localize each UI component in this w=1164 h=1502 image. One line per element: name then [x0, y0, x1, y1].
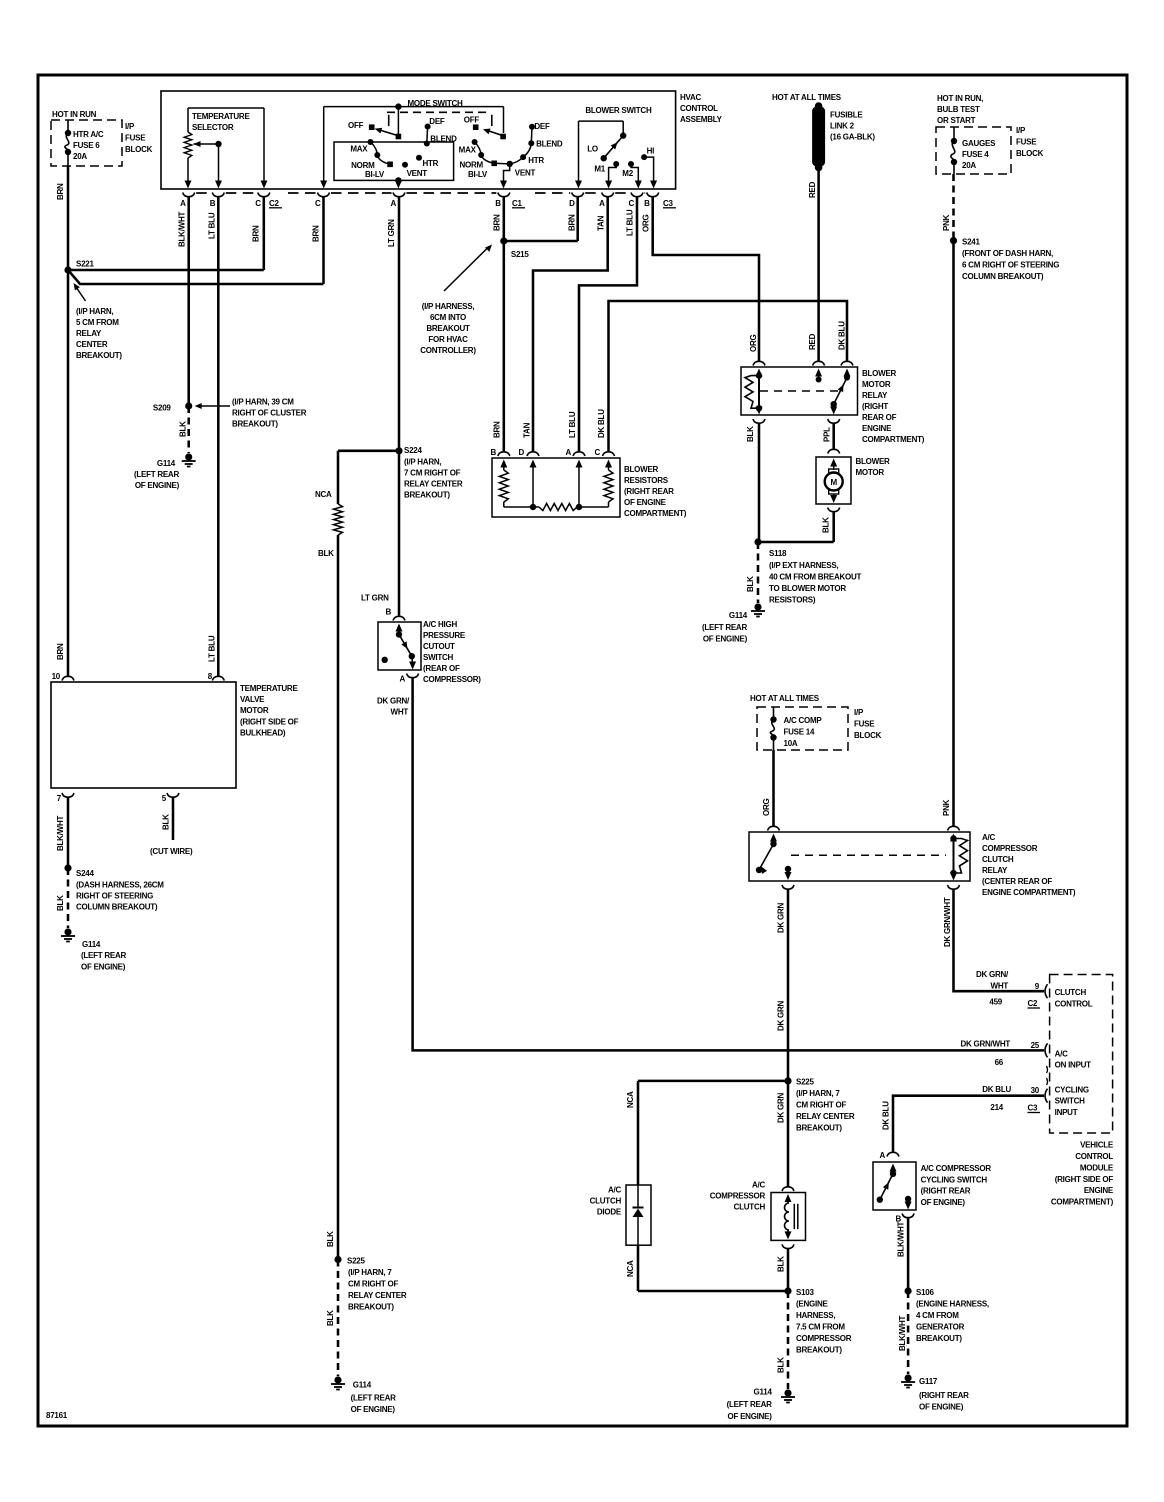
svg-text:D: D	[569, 199, 575, 208]
svg-text:BLK/WHT: BLK/WHT	[897, 1222, 906, 1257]
svg-text:CLUTCH: CLUTCH	[590, 1197, 622, 1206]
svg-text:C: C	[255, 199, 261, 208]
svg-text:(I/P HARN, 39 CM: (I/P HARN, 39 CM	[232, 398, 294, 407]
svg-text:(CENTER REAR OF: (CENTER REAR OF	[982, 877, 1052, 886]
svg-text:BLK: BLK	[746, 576, 755, 592]
svg-text:CM RIGHT OF: CM RIGHT OF	[348, 1280, 398, 1289]
svg-text:G114: G114	[82, 940, 101, 949]
svg-text:OF ENGINE: OF ENGINE	[624, 498, 667, 507]
svg-text:NCA: NCA	[626, 1091, 635, 1108]
svg-text:TAN: TAN	[523, 422, 532, 438]
svg-text:OF ENGINE): OF ENGINE)	[919, 1403, 964, 1412]
svg-text:C: C	[315, 199, 321, 208]
svg-text:G114: G114	[729, 611, 748, 620]
svg-text:COMPRESSOR: COMPRESSOR	[982, 844, 1038, 853]
svg-text:BLOWER SWITCH: BLOWER SWITCH	[585, 106, 652, 115]
svg-text:HARNESS,: HARNESS,	[796, 1311, 835, 1320]
svg-text:CYCLING SWITCH: CYCLING SWITCH	[921, 1175, 988, 1184]
svg-text:LT GRN: LT GRN	[387, 219, 396, 247]
svg-text:COLUMN BREAKOUT): COLUMN BREAKOUT)	[962, 272, 1044, 281]
svg-text:DEF: DEF	[429, 117, 445, 126]
svg-text:VALVE: VALVE	[240, 695, 265, 704]
svg-text:DK BLU: DK BLU	[882, 1101, 891, 1130]
svg-text:ON INPUT: ON INPUT	[1055, 1061, 1092, 1070]
svg-text:TAN: TAN	[597, 215, 606, 231]
svg-text:I/P: I/P	[854, 708, 864, 717]
svg-text:DK GRN/: DK GRN/	[377, 697, 410, 706]
svg-text:BRN: BRN	[493, 421, 502, 438]
svg-text:CM RIGHT OF: CM RIGHT OF	[796, 1101, 846, 1110]
svg-text:BLK: BLK	[179, 421, 188, 437]
svg-text:LT BLU: LT BLU	[568, 411, 577, 438]
svg-text:(DASH HARNESS, 26CM: (DASH HARNESS, 26CM	[76, 881, 164, 890]
svg-text:(LEFT REAR: (LEFT REAR	[134, 470, 180, 479]
svg-text:TEMPERATURE: TEMPERATURE	[192, 112, 250, 121]
svg-text:HOT AT ALL TIMES: HOT AT ALL TIMES	[750, 694, 820, 703]
svg-text:(RIGHT REAR: (RIGHT REAR	[921, 1187, 971, 1196]
svg-text:(ENGINE: (ENGINE	[796, 1300, 829, 1309]
svg-text:CYCLING: CYCLING	[1055, 1085, 1089, 1094]
svg-text:HOT IN RUN,: HOT IN RUN,	[937, 94, 983, 103]
svg-text:FUSE: FUSE	[125, 134, 146, 143]
svg-text:OFF: OFF	[348, 121, 364, 130]
svg-text:NCA: NCA	[315, 490, 332, 499]
svg-text:S225: S225	[347, 1257, 365, 1266]
svg-text:MOTOR: MOTOR	[862, 380, 891, 389]
svg-text:FUSIBLE: FUSIBLE	[830, 111, 863, 120]
svg-text:A/C COMPRESSOR: A/C COMPRESSOR	[921, 1164, 992, 1173]
svg-text:BLOCK: BLOCK	[1016, 149, 1044, 158]
svg-text:DK GRN/WHT: DK GRN/WHT	[943, 897, 952, 947]
svg-text:PPL: PPL	[823, 427, 832, 442]
svg-text:INPUT: INPUT	[1055, 1108, 1078, 1117]
svg-text:G114: G114	[157, 459, 176, 468]
svg-text:20A: 20A	[962, 161, 976, 170]
svg-text:CONTROLLER): CONTROLLER)	[420, 346, 476, 355]
svg-text:LO: LO	[587, 144, 598, 153]
svg-text:DK GRN: DK GRN	[777, 902, 786, 933]
svg-text:CLUTCH: CLUTCH	[734, 1203, 766, 1212]
svg-text:HOT AT ALL TIMES: HOT AT ALL TIMES	[772, 93, 842, 102]
svg-text:CUTOUT: CUTOUT	[423, 642, 455, 651]
svg-text:CLUTCH: CLUTCH	[1055, 988, 1087, 997]
svg-text:B: B	[644, 199, 650, 208]
svg-text:OF ENGINE): OF ENGINE)	[703, 635, 748, 644]
svg-text:BRN: BRN	[312, 225, 321, 242]
svg-text:6CM INTO: 6CM INTO	[430, 313, 466, 322]
svg-text:(CUT WIRE): (CUT WIRE)	[150, 847, 193, 856]
svg-text:PNK: PNK	[942, 214, 951, 231]
svg-text:(LEFT REAR: (LEFT REAR	[702, 623, 748, 632]
svg-text:BLK: BLK	[326, 1231, 335, 1247]
svg-text:A/C: A/C	[752, 1181, 766, 1190]
svg-text:S244: S244	[76, 869, 94, 878]
svg-text:COMPRESSOR): COMPRESSOR)	[423, 675, 481, 684]
svg-text:NORM: NORM	[351, 161, 375, 170]
svg-text:C: C	[594, 448, 600, 457]
svg-text:FUSE 6: FUSE 6	[73, 141, 100, 150]
svg-text:BULKHEAD): BULKHEAD)	[240, 729, 286, 738]
svg-text:C2: C2	[269, 199, 280, 208]
svg-text:BLK: BLK	[318, 549, 334, 558]
svg-text:(I/P HARN,: (I/P HARN,	[76, 307, 113, 316]
svg-text:A/C COMP: A/C COMP	[784, 716, 823, 725]
svg-text:COMPRESSOR: COMPRESSOR	[796, 1334, 852, 1343]
svg-text:(LEFT REAR: (LEFT REAR	[81, 951, 127, 960]
svg-text:HTR A/C: HTR A/C	[73, 130, 104, 139]
svg-text:NCA: NCA	[626, 1260, 635, 1277]
svg-text:M: M	[830, 478, 837, 487]
svg-text:ORG: ORG	[642, 215, 651, 233]
svg-text:NORM: NORM	[459, 161, 483, 170]
svg-text:FUSE: FUSE	[854, 720, 875, 729]
svg-text:SELECTOR: SELECTOR	[192, 123, 234, 132]
svg-text:MOTOR: MOTOR	[240, 706, 269, 715]
svg-text:RELAY CENTER: RELAY CENTER	[404, 480, 463, 489]
svg-text:RIGHT OF STEERING: RIGHT OF STEERING	[76, 892, 153, 901]
svg-text:BLEND: BLEND	[536, 140, 563, 149]
svg-text:BRN: BRN	[56, 183, 65, 200]
svg-text:BLK/WHT: BLK/WHT	[56, 816, 65, 851]
svg-text:BREAKOUT): BREAKOUT)	[76, 351, 122, 360]
svg-text:ENGINE: ENGINE	[862, 424, 892, 433]
svg-text:(RIGHT SIDE OF: (RIGHT SIDE OF	[1055, 1175, 1114, 1184]
svg-text:BULB TEST: BULB TEST	[937, 105, 980, 114]
svg-text:DK GRN/: DK GRN/	[976, 970, 1009, 979]
svg-text:(RIGHT: (RIGHT	[862, 402, 888, 411]
svg-text:OFF: OFF	[464, 116, 480, 125]
svg-text:A: A	[180, 199, 186, 208]
svg-text:RELAY CENTER: RELAY CENTER	[348, 1291, 407, 1300]
svg-text:B: B	[385, 608, 391, 617]
svg-text:LT BLU: LT BLU	[208, 212, 217, 239]
svg-text:S103: S103	[796, 1288, 814, 1297]
svg-text:BLEND: BLEND	[430, 135, 457, 144]
svg-text:(LEFT REAR: (LEFT REAR	[727, 1400, 773, 1409]
svg-text:S241: S241	[962, 238, 980, 247]
svg-text:BLOWER: BLOWER	[624, 465, 659, 474]
svg-text:BLK/WHT: BLK/WHT	[898, 1316, 907, 1351]
svg-text:(I/P HARNESS,: (I/P HARNESS,	[422, 302, 475, 311]
svg-text:HTR: HTR	[423, 159, 439, 168]
svg-text:COMPARTMENT): COMPARTMENT)	[1051, 1198, 1114, 1207]
svg-text:BREAKOUT): BREAKOUT)	[348, 1303, 394, 1312]
svg-text:B: B	[490, 448, 496, 457]
svg-text:MAX: MAX	[350, 145, 368, 154]
svg-text:OF ENGINE): OF ENGINE)	[728, 1412, 773, 1421]
svg-text:BREAKOUT): BREAKOUT)	[232, 420, 278, 429]
svg-text:C: C	[628, 199, 634, 208]
svg-text:DK BLU: DK BLU	[838, 321, 847, 350]
svg-text:PRESSURE: PRESSURE	[423, 631, 466, 640]
svg-text:S225: S225	[796, 1078, 814, 1087]
svg-text:(I/P HARN,: (I/P HARN,	[404, 458, 441, 467]
svg-text:A/C: A/C	[982, 833, 996, 842]
svg-text:S224: S224	[404, 446, 422, 455]
svg-text:D: D	[518, 448, 524, 457]
svg-text:SWITCH: SWITCH	[1055, 1097, 1086, 1106]
svg-text:(REAR OF: (REAR OF	[423, 664, 460, 673]
svg-text:G114: G114	[754, 1388, 773, 1397]
svg-text:BLK: BLK	[822, 517, 831, 533]
svg-text:(RIGHT SIDE OF: (RIGHT SIDE OF	[240, 718, 299, 727]
svg-text:10A: 10A	[784, 739, 798, 748]
svg-text:G117: G117	[919, 1377, 938, 1386]
svg-text:A: A	[565, 448, 571, 457]
svg-text:10: 10	[52, 672, 61, 681]
svg-text:ORG: ORG	[749, 335, 758, 353]
svg-text:HTR: HTR	[528, 156, 544, 165]
svg-text:LT GRN: LT GRN	[361, 594, 389, 603]
svg-text:BLK: BLK	[777, 1357, 786, 1373]
svg-text:M1: M1	[594, 165, 605, 174]
svg-text:RESISTORS: RESISTORS	[624, 476, 669, 485]
svg-text:A/C: A/C	[1055, 1050, 1069, 1059]
svg-text:459: 459	[989, 998, 1002, 1007]
svg-text:LINK 2: LINK 2	[830, 122, 855, 131]
svg-text:MODULE: MODULE	[1080, 1163, 1114, 1172]
svg-text:WHT: WHT	[991, 982, 1009, 991]
svg-text:BREAKOUT): BREAKOUT)	[796, 1124, 842, 1133]
svg-text:BI-LV: BI-LV	[468, 170, 488, 179]
svg-text:GENERATOR: GENERATOR	[916, 1323, 965, 1332]
svg-text:OR START: OR START	[937, 116, 976, 125]
svg-text:BLOWER: BLOWER	[856, 457, 891, 466]
svg-text:OF ENGINE): OF ENGINE)	[81, 963, 126, 972]
svg-text:BREAKOUT: BREAKOUT	[426, 324, 470, 333]
svg-text:ENGINE: ENGINE	[1084, 1186, 1114, 1195]
svg-text:COMPARTMENT): COMPARTMENT)	[624, 509, 687, 518]
svg-text:BREAKOUT): BREAKOUT)	[916, 1334, 962, 1343]
svg-text:CONTROL: CONTROL	[1075, 1152, 1113, 1161]
svg-text:C1: C1	[512, 199, 523, 208]
svg-text:BI-LV: BI-LV	[365, 170, 385, 179]
svg-text:4 CM FROM: 4 CM FROM	[916, 1311, 959, 1320]
svg-text:MAX: MAX	[459, 146, 477, 155]
svg-text:GAUGES: GAUGES	[962, 139, 996, 148]
svg-text:BLK: BLK	[162, 814, 171, 830]
svg-text:BREAKOUT): BREAKOUT)	[404, 491, 450, 500]
svg-text:G114: G114	[353, 1381, 372, 1390]
svg-text:(RIGHT REAR: (RIGHT REAR	[624, 487, 674, 496]
svg-text:ORG: ORG	[762, 799, 771, 817]
svg-text:A: A	[399, 675, 405, 684]
svg-text:BRN: BRN	[568, 214, 577, 231]
svg-text:B: B	[210, 199, 216, 208]
svg-text:BRN: BRN	[56, 643, 65, 660]
svg-text:TO BLOWER MOTOR: TO BLOWER MOTOR	[769, 584, 846, 593]
svg-text:BLK: BLK	[326, 1310, 335, 1326]
svg-text:BLOCK: BLOCK	[854, 731, 882, 740]
svg-text:CONTROL: CONTROL	[1055, 999, 1093, 1008]
svg-text:RESISTORS): RESISTORS)	[769, 596, 816, 605]
svg-text:A: A	[879, 1151, 885, 1160]
svg-text:S215: S215	[511, 250, 529, 259]
svg-text:PNK: PNK	[942, 799, 951, 816]
svg-text:25: 25	[1031, 1041, 1040, 1050]
svg-text:LT BLU: LT BLU	[626, 209, 635, 236]
svg-text:S221: S221	[76, 260, 94, 269]
svg-text:BLOCK: BLOCK	[125, 145, 153, 154]
svg-text:7 CM RIGHT OF: 7 CM RIGHT OF	[404, 469, 461, 478]
svg-text:FUSE 14: FUSE 14	[784, 728, 816, 737]
svg-text:(16 GA-BLK): (16 GA-BLK)	[830, 133, 875, 142]
svg-text:TEMPERATURE: TEMPERATURE	[240, 684, 298, 693]
svg-text:CLUTCH: CLUTCH	[982, 855, 1014, 864]
svg-text:20A: 20A	[73, 152, 87, 161]
svg-text:ASSEMBLY: ASSEMBLY	[680, 115, 723, 124]
svg-text:FOR HVAC: FOR HVAC	[428, 335, 468, 344]
svg-text:S209: S209	[153, 404, 171, 413]
svg-text:BLK: BLK	[56, 895, 65, 911]
svg-text:RELAY CENTER: RELAY CENTER	[796, 1112, 855, 1121]
svg-text:B: B	[495, 199, 501, 208]
svg-text:ENGINE COMPARTMENT): ENGINE COMPARTMENT)	[982, 888, 1076, 897]
svg-text:BRN: BRN	[252, 225, 261, 242]
svg-text:WHT: WHT	[391, 708, 409, 717]
svg-text:RELAY: RELAY	[76, 329, 102, 338]
svg-text:LT BLU: LT BLU	[208, 635, 217, 662]
svg-text:C3: C3	[663, 199, 674, 208]
svg-text:(RIGHT REAR: (RIGHT REAR	[919, 1391, 969, 1400]
svg-text:40 CM FROM BREAKOUT: 40 CM FROM BREAKOUT	[769, 573, 862, 582]
svg-text:FUSE 4: FUSE 4	[962, 150, 989, 159]
svg-text:5 CM FROM: 5 CM FROM	[76, 318, 119, 327]
svg-text:BLK: BLK	[777, 1256, 786, 1272]
svg-text:VENT: VENT	[407, 169, 428, 178]
svg-text:(I/P EXT HARNESS,: (I/P EXT HARNESS,	[769, 561, 838, 570]
svg-text:A: A	[599, 199, 605, 208]
svg-text:REAR OF: REAR OF	[862, 413, 897, 422]
svg-text:DK BLU: DK BLU	[597, 409, 606, 438]
svg-text:DEF: DEF	[534, 122, 550, 131]
svg-text:DK GRN/WHT: DK GRN/WHT	[961, 1040, 1011, 1049]
svg-text:VENT: VENT	[515, 169, 536, 178]
svg-text:(ENGINE HARNESS,: (ENGINE HARNESS,	[916, 1300, 989, 1309]
svg-text:CONTROL: CONTROL	[680, 104, 718, 113]
svg-text:DK GRN: DK GRN	[777, 1092, 786, 1123]
svg-text:C3: C3	[1028, 1104, 1039, 1113]
svg-text:BLK: BLK	[746, 426, 755, 442]
svg-text:A/C HIGH: A/C HIGH	[423, 620, 457, 629]
svg-text:HOT IN RUN: HOT IN RUN	[52, 110, 97, 119]
svg-text:VEHICLE: VEHICLE	[1080, 1141, 1114, 1150]
svg-text:66: 66	[995, 1058, 1004, 1067]
svg-text:RIGHT OF CLUSTER: RIGHT OF CLUSTER	[232, 409, 307, 418]
svg-text:I/P: I/P	[1016, 126, 1026, 135]
svg-text:COLUMN BREAKOUT): COLUMN BREAKOUT)	[76, 903, 158, 912]
svg-text:COMPARTMENT): COMPARTMENT)	[862, 435, 925, 444]
svg-text:(LEFT REAR: (LEFT REAR	[351, 1394, 397, 1403]
svg-text:S106: S106	[916, 1288, 934, 1297]
svg-text:214: 214	[990, 1103, 1003, 1112]
svg-text:BRN: BRN	[493, 214, 502, 231]
svg-text:DK BLU: DK BLU	[982, 1085, 1011, 1094]
svg-text:(I/P HARN, 7: (I/P HARN, 7	[796, 1089, 840, 1098]
svg-text:87161: 87161	[46, 1411, 68, 1420]
svg-text:C2: C2	[1028, 999, 1039, 1008]
svg-text:(FRONT OF DASH HARN,: (FRONT OF DASH HARN,	[962, 249, 1053, 258]
svg-text:7.5 CM FROM: 7.5 CM FROM	[796, 1323, 845, 1332]
svg-text:FUSE: FUSE	[1016, 138, 1037, 147]
svg-text:S118: S118	[769, 549, 787, 558]
svg-text:M2: M2	[622, 169, 633, 178]
svg-text:DIODE: DIODE	[597, 1208, 622, 1217]
svg-text:COMPRESSOR: COMPRESSOR	[710, 1192, 766, 1201]
svg-text:HVAC: HVAC	[680, 93, 702, 102]
svg-text:CENTER: CENTER	[76, 340, 108, 349]
svg-text:RELAY: RELAY	[982, 866, 1008, 875]
svg-text:RED: RED	[808, 333, 817, 350]
svg-text:A: A	[390, 199, 396, 208]
svg-text:RELAY: RELAY	[862, 391, 888, 400]
svg-text:OF ENGINE): OF ENGINE)	[921, 1198, 966, 1207]
svg-text:BLOWER: BLOWER	[862, 369, 897, 378]
svg-text:BREAKOUT): BREAKOUT)	[796, 1346, 842, 1355]
svg-text:A/C: A/C	[608, 1186, 622, 1195]
svg-text:DK GRN: DK GRN	[777, 1000, 786, 1031]
svg-text:6 CM RIGHT OF STEERING: 6 CM RIGHT OF STEERING	[962, 261, 1059, 270]
svg-text:BLK/WHT: BLK/WHT	[178, 212, 187, 247]
svg-text:OF ENGINE): OF ENGINE)	[135, 481, 180, 490]
svg-text:HI: HI	[647, 146, 655, 155]
svg-text:RED: RED	[808, 181, 817, 198]
svg-text:SWITCH: SWITCH	[423, 653, 454, 662]
svg-text:(I/P HARN, 7: (I/P HARN, 7	[348, 1268, 392, 1277]
svg-text:30: 30	[1031, 1086, 1040, 1095]
svg-text:I/P: I/P	[125, 122, 135, 131]
svg-text:MOTOR: MOTOR	[856, 468, 885, 477]
svg-text:OF ENGINE): OF ENGINE)	[351, 1405, 396, 1414]
